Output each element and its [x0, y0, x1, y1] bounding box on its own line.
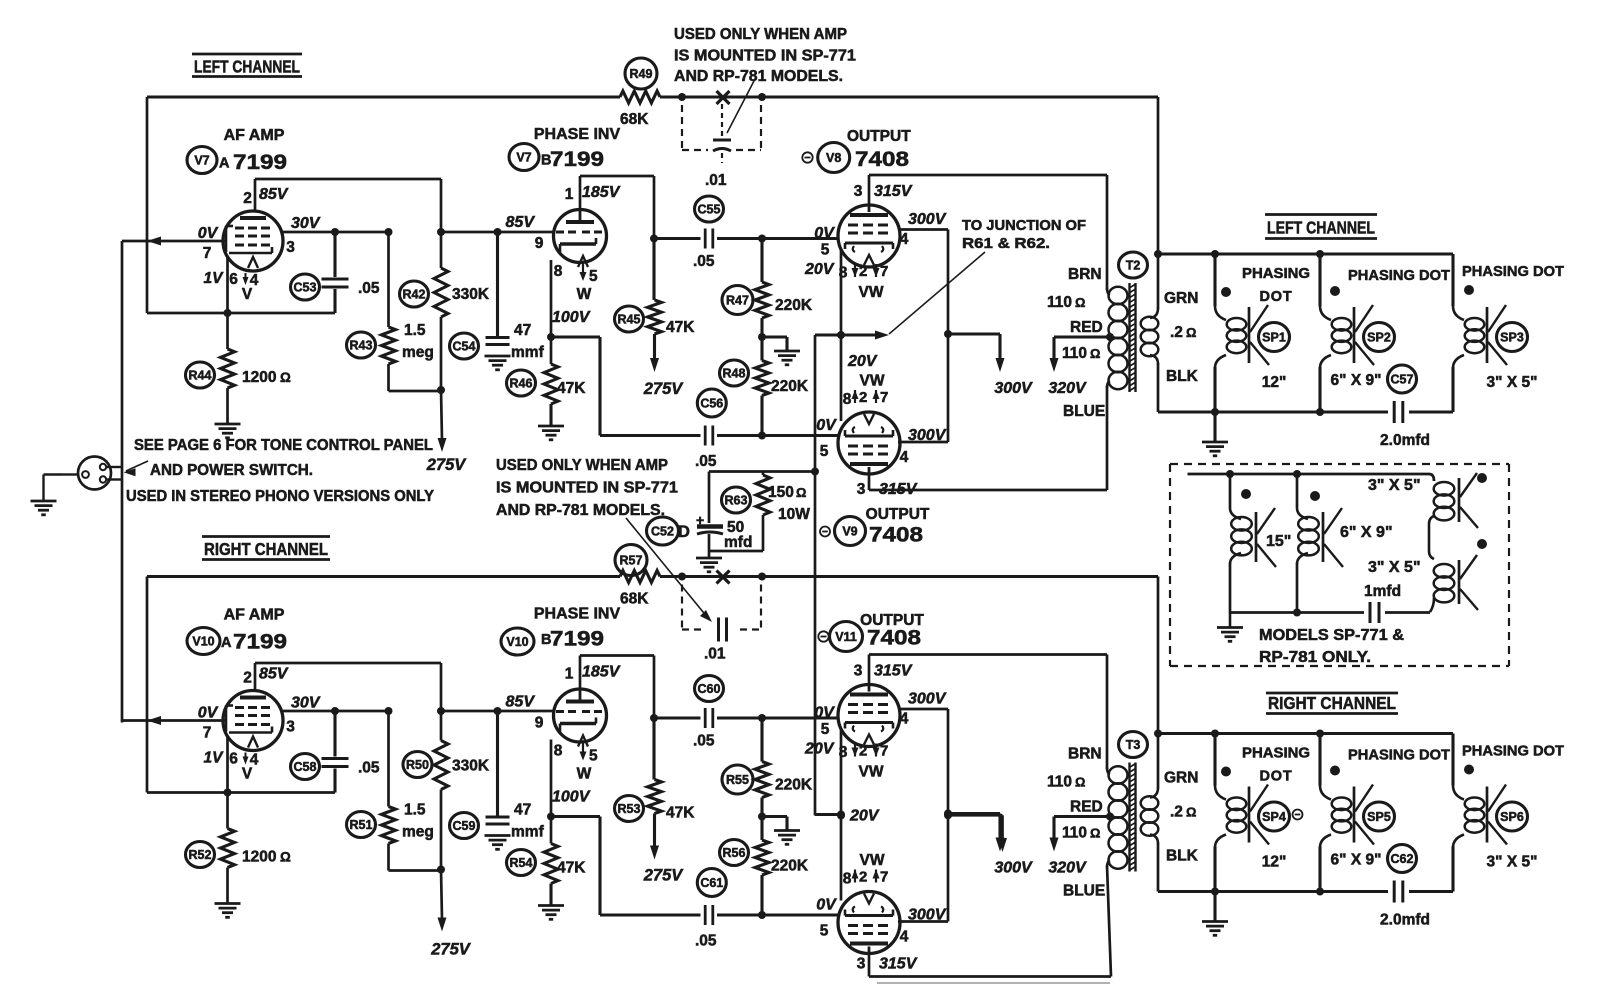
svg-text:315V: 315V — [879, 481, 918, 498]
svg-text:.05: .05 — [695, 453, 717, 470]
svg-text:5: 5 — [821, 242, 830, 259]
svg-text:PHASING: PHASING — [1242, 266, 1310, 282]
svg-text:85V: 85V — [259, 666, 289, 683]
svg-text:V7: V7 — [516, 150, 531, 164]
svg-text:Ω: Ω — [1075, 775, 1085, 790]
svg-text:RED: RED — [1070, 319, 1103, 336]
svg-text:mmf: mmf — [511, 344, 545, 361]
svg-text:.01: .01 — [704, 646, 726, 663]
svg-text:320V: 320V — [1048, 380, 1087, 397]
svg-text:PHASING DOT: PHASING DOT — [1462, 744, 1564, 760]
svg-text:330K: 330K — [452, 758, 490, 775]
svg-text:4: 4 — [900, 929, 909, 946]
svg-text:RIGHT CHANNEL: RIGHT CHANNEL — [204, 539, 328, 559]
svg-text:6: 6 — [229, 271, 238, 288]
svg-text:3: 3 — [854, 663, 863, 680]
svg-text:R53: R53 — [618, 802, 641, 816]
svg-text:6: 6 — [229, 751, 238, 768]
svg-text:47K: 47K — [666, 319, 695, 336]
svg-text:AND POWER SWITCH.: AND POWER SWITCH. — [150, 462, 313, 479]
svg-text:A: A — [219, 156, 230, 172]
svg-text:150: 150 — [768, 484, 794, 501]
svg-text:BLK: BLK — [1166, 848, 1199, 865]
svg-text:1: 1 — [565, 186, 574, 203]
svg-text:7199: 7199 — [550, 627, 604, 651]
svg-text:6" X 9": 6" X 9" — [1331, 372, 1382, 389]
svg-text:12": 12" — [1262, 854, 1287, 871]
svg-text:275V: 275V — [643, 380, 685, 398]
svg-text:47: 47 — [514, 802, 531, 819]
svg-text:5: 5 — [589, 748, 598, 765]
svg-text:1V: 1V — [204, 750, 225, 767]
svg-text:0V: 0V — [198, 705, 219, 722]
svg-text:PHASING DOT: PHASING DOT — [1348, 268, 1450, 284]
svg-text:C57: C57 — [1391, 372, 1414, 386]
svg-text:AF AMP: AF AMP — [224, 607, 285, 624]
svg-text:BLUE: BLUE — [1063, 883, 1105, 900]
svg-text:LEFT CHANNEL: LEFT CHANNEL — [194, 57, 300, 77]
svg-text:6" X 9": 6" X 9" — [1331, 852, 1382, 869]
svg-text:D: D — [678, 523, 690, 541]
svg-text:315V: 315V — [874, 183, 913, 200]
svg-text:R45: R45 — [618, 312, 641, 326]
svg-text:R56: R56 — [723, 846, 746, 860]
svg-text:3: 3 — [854, 183, 863, 200]
svg-text:1.5: 1.5 — [404, 802, 426, 819]
svg-text:Ω: Ω — [796, 485, 806, 500]
svg-text:47K: 47K — [557, 380, 586, 397]
svg-text:220K: 220K — [775, 777, 813, 794]
svg-text:+: + — [696, 512, 704, 528]
svg-text:20V: 20V — [847, 353, 878, 370]
svg-text:300V: 300V — [908, 427, 947, 444]
svg-text:0V: 0V — [198, 225, 219, 242]
svg-text:2: 2 — [859, 263, 867, 280]
svg-text:SEE PAGE 6 FOR TONE CONTROL PA: SEE PAGE 6 FOR TONE CONTROL PANEL — [134, 437, 433, 454]
svg-text:R61 & R62.: R61 & R62. — [962, 236, 1050, 252]
svg-text:Ω: Ω — [280, 850, 291, 865]
svg-text:VW: VW — [859, 764, 884, 781]
svg-text:R51: R51 — [350, 818, 373, 832]
svg-text:30V: 30V — [291, 695, 321, 712]
svg-text:Ω: Ω — [1075, 295, 1085, 310]
svg-text:T3: T3 — [1126, 738, 1141, 752]
svg-text:.05: .05 — [358, 760, 380, 777]
svg-text:SP4: SP4 — [1262, 810, 1286, 824]
svg-text:2: 2 — [859, 743, 867, 760]
svg-text:9: 9 — [535, 235, 544, 252]
svg-text:PHASE INV: PHASE INV — [534, 126, 621, 143]
svg-text:USED ONLY WHEN AMP: USED ONLY WHEN AMP — [674, 26, 847, 43]
svg-text:.05: .05 — [695, 933, 717, 950]
svg-text:R48: R48 — [723, 366, 746, 380]
svg-text:0V: 0V — [816, 417, 837, 434]
svg-text:BLUE: BLUE — [1063, 403, 1105, 420]
svg-text:1200: 1200 — [242, 369, 276, 386]
svg-text:R50: R50 — [406, 758, 429, 772]
svg-text:2: 2 — [859, 869, 867, 886]
svg-text:300V: 300V — [908, 907, 947, 924]
svg-text:C55: C55 — [698, 202, 721, 216]
svg-text:20V: 20V — [804, 261, 835, 278]
svg-text:110: 110 — [1047, 294, 1072, 311]
svg-text:8: 8 — [839, 265, 848, 282]
svg-text:.01: .01 — [705, 172, 727, 189]
svg-text:315V: 315V — [874, 663, 913, 680]
svg-text:20V: 20V — [804, 741, 835, 758]
svg-text:Ω: Ω — [1090, 346, 1100, 361]
svg-text:4: 4 — [900, 231, 909, 248]
svg-text:C54: C54 — [453, 339, 476, 353]
svg-text:RIGHT CHANNEL: RIGHT CHANNEL — [1268, 693, 1396, 713]
svg-text:7199: 7199 — [233, 630, 287, 654]
svg-text:VW: VW — [859, 284, 884, 301]
svg-text:IS MOUNTED IN SP-771: IS MOUNTED IN SP-771 — [674, 48, 856, 65]
svg-text:4: 4 — [900, 449, 909, 466]
svg-text:.2: .2 — [1170, 804, 1183, 821]
svg-text:TO JUNCTION OF: TO JUNCTION OF — [962, 218, 1086, 234]
svg-text:R44: R44 — [189, 368, 212, 382]
svg-text:V: V — [242, 286, 253, 303]
svg-text:SP6: SP6 — [1500, 810, 1524, 824]
svg-text:330K: 330K — [452, 286, 490, 303]
svg-text:PHASING DOT: PHASING DOT — [1462, 264, 1564, 280]
svg-text:PHASING DOT: PHASING DOT — [1348, 748, 1450, 764]
svg-text:SP2: SP2 — [1367, 330, 1391, 344]
svg-text:AND RP-781 MODELS.: AND RP-781 MODELS. — [674, 68, 843, 85]
svg-text:1.5: 1.5 — [404, 322, 426, 339]
svg-text:68K: 68K — [620, 591, 649, 608]
svg-text:R49: R49 — [630, 67, 653, 81]
svg-text:C53: C53 — [294, 280, 317, 294]
svg-text:Ω: Ω — [1186, 325, 1196, 340]
svg-text:RP-781 ONLY.: RP-781 ONLY. — [1259, 649, 1371, 666]
svg-text:C52: C52 — [651, 524, 674, 538]
svg-text:V: V — [242, 766, 253, 783]
svg-text:110: 110 — [1047, 774, 1072, 791]
svg-text:110: 110 — [1062, 345, 1087, 362]
svg-text:.05: .05 — [693, 733, 715, 750]
svg-text:LEFT CHANNEL: LEFT CHANNEL — [1267, 218, 1375, 238]
svg-text:Ω: Ω — [1090, 826, 1100, 841]
svg-text:3: 3 — [286, 239, 295, 256]
svg-text:47K: 47K — [557, 860, 586, 877]
svg-text:7199: 7199 — [550, 147, 604, 171]
svg-text:T2: T2 — [1126, 258, 1141, 272]
svg-text:300V: 300V — [908, 691, 947, 708]
svg-text:C58: C58 — [294, 760, 317, 774]
svg-text:7: 7 — [880, 389, 888, 406]
svg-text:2.0mfd: 2.0mfd — [1380, 912, 1430, 929]
svg-text:7: 7 — [203, 245, 212, 262]
svg-text:4: 4 — [900, 711, 909, 728]
svg-text:A: A — [221, 635, 232, 651]
svg-text:2.0mfd: 2.0mfd — [1380, 432, 1430, 449]
svg-text:15": 15" — [1266, 533, 1291, 550]
svg-text:SP3: SP3 — [1500, 330, 1524, 344]
svg-text:.05: .05 — [358, 280, 380, 297]
svg-text:V10: V10 — [192, 634, 214, 648]
svg-text:W: W — [577, 766, 592, 783]
svg-text:7: 7 — [203, 725, 212, 742]
svg-text:30V: 30V — [291, 215, 321, 232]
svg-text:R52: R52 — [189, 848, 212, 862]
svg-text:8: 8 — [554, 263, 563, 280]
svg-text:7: 7 — [880, 263, 888, 280]
svg-text:85V: 85V — [506, 694, 536, 711]
svg-text:AND RP-781 MODELS.: AND RP-781 MODELS. — [496, 502, 665, 519]
svg-text:85V: 85V — [506, 214, 536, 231]
svg-text:0V: 0V — [814, 225, 835, 242]
svg-text:R63: R63 — [725, 493, 748, 507]
svg-text:meg: meg — [402, 824, 434, 841]
svg-text:V7: V7 — [194, 153, 209, 167]
svg-text:R46: R46 — [510, 376, 533, 390]
svg-text:.2: .2 — [1170, 324, 1183, 341]
svg-text:8: 8 — [843, 391, 852, 408]
svg-text:12": 12" — [1262, 374, 1287, 391]
svg-text:1V: 1V — [204, 270, 225, 287]
svg-text:185V: 185V — [582, 184, 621, 201]
svg-text:PHASING: PHASING — [1242, 746, 1310, 762]
svg-text:PHASE INV: PHASE INV — [534, 606, 621, 623]
svg-text:220K: 220K — [771, 378, 809, 395]
svg-text:5: 5 — [821, 721, 830, 738]
svg-text:2: 2 — [243, 190, 252, 207]
svg-text:V11: V11 — [835, 630, 857, 644]
svg-text:220K: 220K — [771, 858, 809, 875]
svg-text:AF AMP: AF AMP — [224, 127, 285, 144]
svg-text:47: 47 — [514, 322, 531, 339]
svg-text:2: 2 — [859, 389, 867, 406]
svg-text:8: 8 — [554, 743, 563, 760]
svg-text:3: 3 — [857, 481, 866, 498]
svg-text:5: 5 — [589, 268, 598, 285]
svg-text:8: 8 — [843, 871, 852, 888]
svg-text:BLK: BLK — [1166, 368, 1199, 385]
svg-text:320V: 320V — [1048, 860, 1087, 877]
svg-text:BRN: BRN — [1068, 266, 1102, 283]
svg-text:C59: C59 — [453, 819, 476, 833]
svg-text:8: 8 — [839, 744, 848, 761]
svg-text:10W: 10W — [778, 506, 810, 523]
svg-text:IS MOUNTED IN SP-771: IS MOUNTED IN SP-771 — [496, 480, 678, 497]
svg-text:9: 9 — [535, 715, 544, 732]
svg-text:300V: 300V — [994, 380, 1033, 397]
svg-text:68K: 68K — [620, 111, 649, 128]
svg-text:R54: R54 — [510, 856, 533, 870]
svg-text:3" X 5": 3" X 5" — [1487, 854, 1538, 871]
svg-text:C60: C60 — [698, 682, 721, 696]
svg-text:275V: 275V — [426, 456, 468, 474]
svg-text:C61: C61 — [700, 876, 723, 890]
svg-text:.05: .05 — [693, 253, 715, 270]
svg-text:C62: C62 — [1391, 852, 1414, 866]
svg-text:DOT: DOT — [1259, 769, 1292, 785]
svg-text:meg: meg — [402, 344, 434, 361]
svg-text:300V: 300V — [994, 860, 1033, 877]
svg-text:275V: 275V — [430, 941, 472, 959]
svg-text:R57: R57 — [620, 553, 643, 567]
svg-text:USED ONLY WHEN AMP: USED ONLY WHEN AMP — [496, 457, 668, 474]
svg-text:3" X 5": 3" X 5" — [1368, 559, 1421, 576]
svg-text:7408: 7408 — [855, 147, 909, 171]
svg-text:OUTPUT: OUTPUT — [847, 128, 911, 145]
svg-text:3: 3 — [857, 956, 866, 973]
svg-text:mmf: mmf — [511, 824, 545, 841]
svg-text:6" X 9": 6" X 9" — [1340, 524, 1393, 541]
svg-text:100V: 100V — [552, 789, 591, 806]
svg-text:185V: 185V — [582, 664, 621, 681]
svg-text:0V: 0V — [814, 705, 835, 722]
svg-text:C56: C56 — [700, 396, 723, 410]
svg-text:MODELS SP-771 &: MODELS SP-771 & — [1259, 627, 1404, 644]
svg-text:7408: 7408 — [869, 523, 923, 547]
svg-text:1200: 1200 — [242, 849, 276, 866]
svg-text:3" X 5": 3" X 5" — [1487, 374, 1538, 391]
svg-text:SP5: SP5 — [1367, 810, 1391, 824]
svg-text:5: 5 — [820, 443, 829, 460]
svg-text:USED IN STEREO PHONO VERSIONS: USED IN STEREO PHONO VERSIONS ONLY — [126, 488, 435, 505]
svg-text:GRN: GRN — [1164, 770, 1198, 787]
svg-text:110: 110 — [1062, 825, 1087, 842]
svg-text:7408: 7408 — [867, 626, 921, 650]
svg-text:5: 5 — [820, 923, 829, 940]
svg-text:100V: 100V — [552, 309, 591, 326]
svg-text:SP1: SP1 — [1262, 330, 1286, 344]
svg-text:R42: R42 — [403, 287, 426, 301]
svg-text:0V: 0V — [816, 897, 837, 914]
svg-text:7: 7 — [880, 743, 888, 760]
svg-text:OUTPUT: OUTPUT — [866, 506, 930, 523]
svg-text:DOT: DOT — [1259, 289, 1292, 305]
svg-text:V9: V9 — [842, 524, 857, 538]
svg-text:V10: V10 — [506, 635, 528, 649]
svg-text:R47: R47 — [726, 293, 749, 307]
svg-text:Ω: Ω — [280, 370, 291, 385]
svg-text:1mfd: 1mfd — [1364, 583, 1401, 600]
svg-text:VW: VW — [860, 852, 885, 869]
svg-text:20V: 20V — [849, 808, 880, 825]
svg-text:85V: 85V — [259, 186, 289, 203]
svg-text:GRN: GRN — [1164, 290, 1198, 307]
svg-text:mfd: mfd — [724, 534, 752, 551]
svg-text:47K: 47K — [666, 805, 695, 822]
svg-text:220K: 220K — [775, 297, 813, 314]
svg-text:7: 7 — [880, 869, 888, 886]
svg-text:275V: 275V — [643, 867, 685, 885]
svg-text:7199: 7199 — [233, 150, 287, 174]
svg-text:1: 1 — [565, 666, 574, 683]
svg-text:V8: V8 — [826, 151, 841, 165]
svg-text:300V: 300V — [908, 211, 947, 228]
svg-text:W: W — [577, 286, 592, 303]
svg-text:RED: RED — [1070, 799, 1103, 816]
svg-text:3: 3 — [286, 719, 295, 736]
svg-text:315V: 315V — [879, 956, 918, 973]
svg-text:2: 2 — [243, 670, 252, 687]
svg-text:BRN: BRN — [1068, 746, 1102, 763]
svg-text:3" X 5": 3" X 5" — [1368, 477, 1421, 494]
svg-text:R43: R43 — [350, 338, 373, 352]
svg-text:R55: R55 — [726, 773, 749, 787]
svg-text:VW: VW — [860, 373, 885, 390]
svg-text:Ω: Ω — [1186, 805, 1196, 820]
